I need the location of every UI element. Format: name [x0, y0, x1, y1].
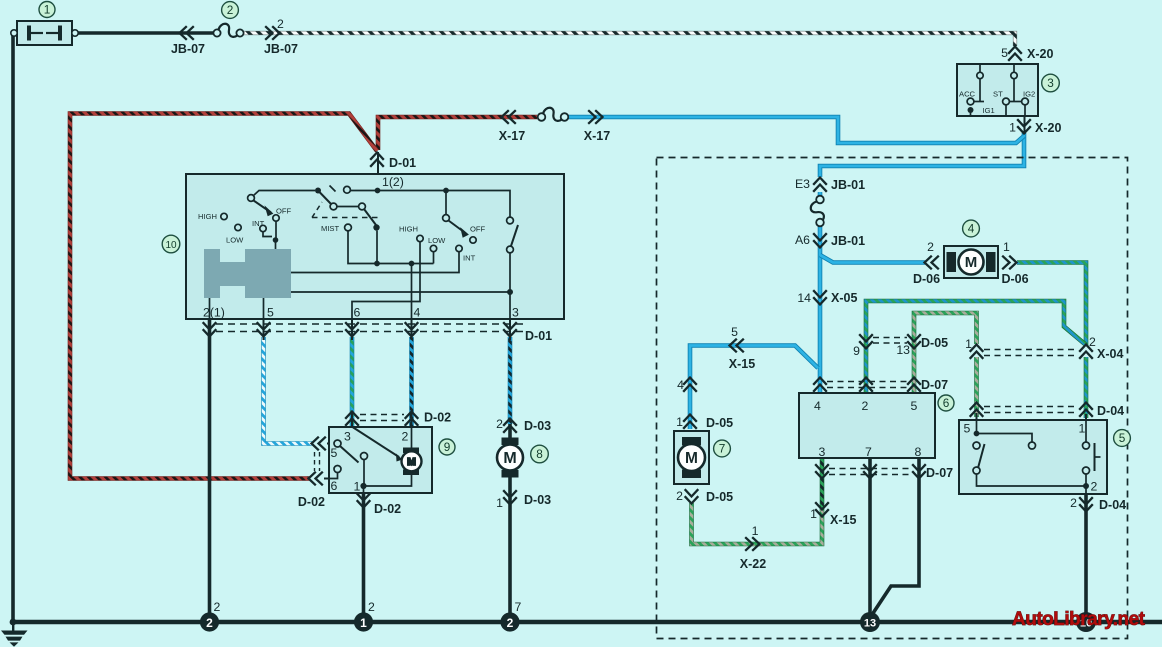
ground node 2 (left)	[200, 612, 219, 631]
svg-text:X-15: X-15	[830, 513, 856, 527]
svg-text:13: 13	[896, 343, 910, 357]
connector D-07 row bottom of box6	[829, 469, 913, 475]
svg-text:6: 6	[331, 479, 338, 493]
wire green/black striped: box6 pin3 to X-15	[820, 392, 825, 508]
svg-text:D-07: D-07	[921, 378, 948, 392]
svg-text:D-03: D-03	[524, 493, 551, 507]
front washer motor 4	[944, 246, 998, 278]
middle off switch	[445, 191, 447, 215]
svg-text:JB-07: JB-07	[171, 42, 205, 56]
connector D-04 row	[984, 407, 1078, 413]
svg-text:LOW: LOW	[428, 236, 446, 245]
svg-text:X-17: X-17	[499, 129, 525, 143]
connector D-05 pin2 arrow	[685, 489, 699, 503]
motor M in box9	[353, 427, 400, 457]
badge 1	[39, 2, 55, 18]
svg-text:D-03: D-03	[524, 419, 551, 433]
wire black: D-03 to washer motor 8 and down to ground node	[508, 424, 512, 445]
connector D-02 pin1 arrow below box9	[357, 493, 371, 507]
svg-text:5: 5	[1001, 46, 1008, 60]
svg-text:JB-01: JB-01	[831, 178, 865, 192]
svg-text:OFF: OFF	[470, 225, 486, 234]
svg-text:X-20: X-20	[1027, 47, 1053, 61]
connector D-01 row	[216, 324, 523, 332]
svg-text:9: 9	[853, 344, 860, 358]
svg-text:JB-07: JB-07	[264, 42, 298, 56]
svg-text:D-04: D-04	[1099, 498, 1126, 512]
svg-text:D-01: D-01	[525, 329, 552, 343]
wire black/white striped: fuse 2 to ignition switch pin 5	[243, 33, 1015, 46]
wire blue branch X-15 to motor 7	[690, 346, 818, 430]
svg-text:X-22: X-22	[740, 557, 766, 571]
wiper lever contact	[248, 195, 255, 202]
svg-text:JB-01: JB-01	[831, 234, 865, 248]
svg-text:D-02: D-02	[374, 502, 401, 516]
svg-text:M: M	[407, 456, 416, 468]
svg-text:X-20: X-20	[1035, 121, 1061, 135]
svg-text:1: 1	[676, 415, 683, 429]
node junction mist-row	[315, 188, 321, 194]
wire blue/black striped: comb. switch pin4 to wiper motor pin2	[409, 337, 414, 427]
top row continues	[344, 186, 351, 193]
badge 2	[222, 2, 239, 19]
svg-text:ACC: ACC	[959, 90, 976, 99]
wire battery negative to ground bus (left vertical)	[11, 33, 15, 622]
wire red/black striped: D-01 up-left, long loop to wiper motor pin 6	[70, 114, 377, 479]
contact HIGH left	[221, 213, 227, 219]
connector X-05 pin14 arrow	[813, 290, 827, 304]
wire JB-01 blue vertical: E3/A6 to box6 pin4	[818, 192, 823, 392]
wire black: combination switch pin 2(1) to ground node	[208, 320, 212, 622]
svg-text:2: 2	[676, 489, 683, 503]
svg-text:D-05: D-05	[706, 416, 733, 430]
svg-text:D-06: D-06	[913, 272, 940, 286]
svg-text:4: 4	[677, 378, 684, 392]
svg-text:13: 13	[864, 618, 876, 630]
svg-text:2: 2	[214, 600, 221, 614]
wire black: wiper motor pin1 D-02 down to ground node	[362, 493, 366, 622]
svg-text:1: 1	[496, 496, 503, 510]
connector X-17 arrow right	[588, 110, 602, 124]
wire green/blue striped: box6 pin2 up to X-04 pin2	[866, 301, 1086, 392]
pin4 wire	[411, 264, 413, 320]
svg-text:5: 5	[331, 446, 338, 460]
svg-text:9: 9	[444, 440, 451, 454]
intermittent governor block	[204, 249, 291, 298]
svg-text:1(2): 1(2)	[382, 175, 404, 189]
svg-text:X-04: X-04	[1097, 347, 1123, 361]
contact LOW right	[430, 245, 436, 251]
svg-text:M: M	[503, 450, 516, 467]
svg-text:IG2: IG2	[1023, 90, 1035, 99]
svg-text:5: 5	[911, 399, 918, 413]
connector D-02 left arrows	[312, 437, 326, 451]
svg-text:5: 5	[964, 422, 971, 436]
svg-text:2: 2	[862, 399, 869, 413]
svg-text:LOW: LOW	[226, 236, 244, 245]
badge 3	[1042, 74, 1060, 92]
fuse X-17	[538, 108, 569, 121]
wire blue branch to D-06 motor 4	[820, 255, 925, 263]
svg-text:HIGH: HIGH	[399, 225, 418, 234]
rear washer motor 7	[674, 431, 709, 484]
fuse 2	[213, 24, 243, 37]
badge 6	[938, 395, 954, 411]
wire blue/white striped: comb. switch pin5 to wiper motor pin5	[264, 337, 313, 444]
wire black: box6 pin8 joins node 13	[871, 392, 920, 617]
connector X-15 arrow pin5	[730, 339, 744, 353]
svg-text:2: 2	[227, 3, 234, 17]
connector D-05 pin1 arrow	[683, 415, 697, 429]
wire blue/green striped: comb. switch pin6 to wiper motor pin3	[350, 337, 355, 427]
battery G1	[11, 21, 78, 45]
wire green/blue striped: motor4 pin1 to X-04 pin2	[1017, 263, 1086, 347]
MIST contact	[345, 224, 352, 231]
svg-text:2(1): 2(1)	[203, 306, 225, 320]
wire black: box6 pin7 to ground node 13	[868, 392, 872, 622]
svg-text:6: 6	[943, 396, 950, 410]
right off switch	[507, 217, 514, 224]
lower resistor output to pin3	[291, 292, 510, 319]
svg-text:3: 3	[344, 430, 351, 444]
badge 10	[162, 235, 180, 253]
svg-text:INT: INT	[252, 219, 265, 228]
connector X-20 pin1 arrow	[1017, 119, 1031, 133]
svg-text:1: 1	[752, 524, 759, 538]
svg-text:D-02: D-02	[424, 411, 451, 425]
svg-text:INT: INT	[463, 254, 476, 263]
svg-text:A6: A6	[795, 233, 810, 247]
svg-text:E3: E3	[795, 177, 810, 191]
badge 5	[1114, 430, 1131, 447]
svg-text:5: 5	[267, 306, 274, 320]
rear wiper switch 5	[959, 420, 1107, 494]
ground node 10	[1076, 612, 1096, 632]
svg-text:5: 5	[1119, 431, 1126, 445]
svg-text:3: 3	[512, 306, 519, 320]
ground node 2 (mid)	[500, 612, 519, 631]
svg-text:1: 1	[1003, 240, 1010, 254]
wire D-01 pin 1(2) into combination switch	[377, 152, 379, 190]
ganged link dashed	[312, 202, 322, 218]
contact LOW left	[235, 224, 241, 230]
connector X-17 arrow left	[502, 110, 516, 124]
svg-text:4: 4	[968, 222, 975, 236]
wire red/black striped: D-01 pin1 to X-17 fuse	[378, 117, 537, 150]
svg-text:14: 14	[797, 291, 811, 305]
svg-text:AutoLibrary.net: AutoLibrary.net	[1012, 609, 1146, 630]
connector D-03 arrows and washer motor 8	[503, 419, 517, 433]
connector D-02 row above wiper motor	[360, 415, 404, 421]
svg-text:ST: ST	[993, 90, 1003, 99]
wire stubs at wiper motor box 9	[324, 411, 412, 479]
svg-text:1: 1	[810, 507, 817, 521]
badge 9	[439, 439, 455, 455]
wire black stub D-04 into rear wiper switch pin5	[976, 413, 978, 422]
svg-text:D-05: D-05	[706, 490, 733, 504]
connector X-04 row	[984, 350, 1078, 356]
svg-text:2: 2	[402, 430, 409, 444]
svg-text:5: 5	[731, 325, 738, 339]
contact HIGH right	[417, 235, 423, 241]
badge 7	[714, 440, 731, 457]
svg-text:2: 2	[368, 600, 375, 614]
badge 8	[531, 445, 549, 463]
svg-text:3: 3	[819, 445, 826, 459]
svg-text:2: 2	[507, 616, 514, 630]
connector D-04 pin2 arrow	[1079, 497, 1093, 511]
contact INT left	[260, 225, 266, 231]
svg-text:8: 8	[536, 447, 543, 461]
svg-text:M: M	[965, 254, 978, 271]
wire blue: X-17 fuse to ignition area	[567, 117, 1024, 143]
wire blue/black striped: comb. switch pin3 to washer motor D-03	[508, 337, 513, 424]
wire black: rear wiper switch pin2 to ground node	[1084, 488, 1088, 622]
connector X-15 pin4 arrow	[683, 378, 697, 392]
svg-text:D-01: D-01	[389, 156, 416, 170]
svg-text:2: 2	[496, 417, 503, 431]
connector D-01 pin1(2) arrow	[370, 153, 384, 167]
connector JB-07 arrow right	[265, 26, 279, 40]
wire battery positive to fuse 2	[77, 31, 214, 35]
connector D-07 row top of box6	[827, 382, 908, 388]
connector JB-01 A6 arrow	[813, 233, 827, 247]
lever arrow to OFF	[254, 201, 272, 213]
contact OFF left	[273, 215, 279, 221]
wire blue: ignition pin1 X-20 down and left to JB-01	[820, 133, 1024, 177]
svg-text:2: 2	[206, 616, 213, 630]
svg-text:4: 4	[814, 399, 821, 413]
svg-text:3: 3	[1047, 76, 1054, 90]
svg-text:2: 2	[277, 17, 284, 31]
svg-text:7: 7	[719, 442, 726, 456]
svg-text:D-07: D-07	[926, 466, 953, 480]
fuse JB-01	[811, 196, 824, 227]
svg-text:1: 1	[354, 480, 361, 494]
svg-text:7: 7	[865, 445, 872, 459]
badge 4	[963, 220, 980, 237]
svg-text:2: 2	[1089, 335, 1096, 349]
svg-text:6: 6	[354, 306, 361, 320]
svg-text:D-04: D-04	[1097, 404, 1124, 418]
svg-text:X-15: X-15	[729, 357, 755, 371]
connector D-06 arrow left	[925, 256, 939, 270]
connector X-20 pin5 arrow	[1008, 47, 1022, 61]
wire green/gray striped: X-15 down to X-22 to motor7 pin2	[692, 503, 823, 544]
wire green/blue striped: X-04 pin2 down to D-04 pin1	[1084, 357, 1089, 418]
svg-text:D-06: D-06	[1001, 272, 1028, 286]
svg-text:1: 1	[1009, 121, 1016, 135]
svg-text:4: 4	[414, 306, 421, 320]
connector JB-07 arrow left	[180, 26, 194, 40]
svg-text:2: 2	[1070, 496, 1077, 510]
svg-text:IG1: IG1	[983, 106, 995, 115]
svg-text:2: 2	[927, 240, 934, 254]
connector X-15 pin1 arrow	[815, 502, 829, 516]
mist switch blade	[318, 191, 332, 206]
ground bus wire bottom	[11, 620, 1162, 624]
svg-text:1: 1	[44, 3, 51, 17]
connector D-05 row at box6	[873, 338, 907, 344]
combination switch 10 box	[186, 174, 564, 319]
ground node 1	[354, 612, 373, 631]
wire black stubs: comb switch pins to D-01 connector	[210, 319, 511, 340]
svg-text:D-05: D-05	[921, 336, 948, 350]
connector JB-01 E3 arrow	[813, 178, 827, 192]
connector X-22 arrow	[745, 537, 759, 551]
ignition switch 3	[957, 64, 1038, 134]
svg-text:D-02: D-02	[298, 495, 325, 509]
svg-text:X-05: X-05	[831, 291, 857, 305]
svg-text:8: 8	[915, 445, 922, 459]
svg-text:1: 1	[965, 337, 972, 351]
dashed harness enclosure box	[657, 158, 1128, 639]
svg-text:10: 10	[165, 240, 177, 251]
ground node 13	[860, 612, 880, 632]
svg-text:1: 1	[360, 616, 367, 630]
park switch contacts	[334, 440, 341, 447]
wire black stub D-04 into rear wiper switch pin1	[1085, 414, 1087, 422]
wiper motor 9 box	[329, 427, 432, 493]
connector D-06 arrow right	[1002, 256, 1016, 270]
svg-text:OFF: OFF	[276, 207, 292, 216]
pin 2(1) and 5 stubs	[210, 298, 264, 319]
wiper relay unit 6	[799, 393, 935, 458]
svg-text:1: 1	[1079, 422, 1086, 436]
svg-text:7: 7	[515, 600, 522, 614]
svg-text:2: 2	[1091, 480, 1098, 494]
ground symbol bottom left	[1, 619, 28, 647]
contact INT right	[456, 245, 462, 251]
svg-text:MIST: MIST	[321, 224, 340, 233]
wire green/gray striped: box6 pin5 up over to X-04 pin1 and D-04 pin5	[914, 313, 977, 392]
svg-text:HIGH: HIGH	[198, 212, 217, 221]
svg-text:X-17: X-17	[584, 129, 610, 143]
svg-text:M: M	[685, 450, 698, 467]
